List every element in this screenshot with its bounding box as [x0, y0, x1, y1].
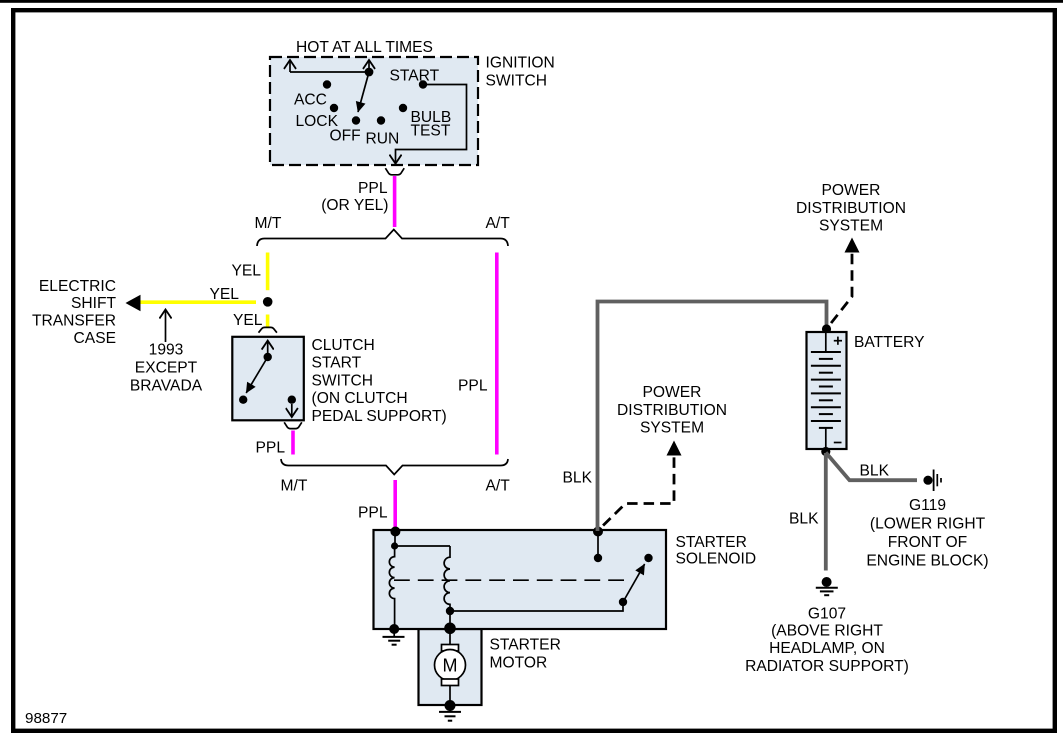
battery top stub [825, 332, 827, 352]
dashed arrow to power distribution mid [600, 457, 675, 529]
node coil junction [391, 542, 398, 549]
svg-text:SHIFT: SHIFT [71, 295, 117, 312]
connector cup below clutch switch [284, 422, 302, 428]
svg-text:SOLENOID: SOLENOID [676, 551, 757, 568]
wire YEL horizontal to transfer case [140, 300, 257, 304]
svg-text:SYSTEM: SYSTEM [819, 218, 883, 235]
ground G119 [923, 476, 932, 485]
arrowhead power distribution top [845, 238, 860, 253]
brace merge M/T A/T [281, 459, 508, 475]
svg-text:HEADLAMP, ON: HEADLAMP, ON [769, 640, 885, 657]
svg-text:G107: G107 [808, 605, 846, 622]
node solenoid ground junction [389, 624, 399, 634]
wire PPL A/T long [495, 253, 499, 455]
motor body M [435, 650, 466, 681]
contact RUN [377, 116, 385, 124]
ground G107 [822, 577, 832, 587]
node fixed contact [594, 554, 602, 562]
svg-text:PPL: PPL [458, 378, 488, 395]
svg-text:98877: 98877 [25, 710, 67, 727]
svg-text:SWITCH: SWITCH [312, 372, 374, 389]
svg-text:OFF: OFF [330, 128, 361, 145]
svg-text:BRAVADA: BRAVADA [130, 377, 203, 394]
contact OFF [352, 116, 360, 124]
wire PPL to solenoid [393, 480, 397, 530]
svg-text:CLUTCH: CLUTCH [312, 337, 375, 354]
svg-text:A/T: A/T [486, 478, 511, 495]
contact LOCK [330, 104, 338, 112]
wire START output [396, 85, 467, 164]
svg-text:YEL: YEL [232, 262, 262, 279]
svg-text:POWER: POWER [822, 182, 881, 199]
clutch start switch box [232, 337, 303, 421]
svg-text:START: START [312, 355, 362, 372]
wire BLK solenoid to battery [598, 302, 827, 532]
wire BLK battery to G107 [824, 453, 828, 571]
battery minus sign [834, 442, 842, 444]
ground starter motor [449, 706, 451, 713]
svg-text:(OR YEL): (OR YEL) [321, 197, 388, 214]
wire feed mid arrow [368, 60, 370, 72]
svg-text:YEL: YEL [233, 312, 263, 329]
svg-text:DISTRIBUTION: DISTRIBUTION [617, 402, 727, 419]
clutch switch bottom-left contact [239, 396, 247, 404]
svg-text:ELECTRIC: ELECTRIC [39, 278, 116, 295]
svg-text:(ON CLUTCH: (ON CLUTCH [312, 390, 408, 407]
svg-text:M/T: M/T [255, 215, 282, 232]
node battery positive [822, 324, 831, 333]
contact BULB TEST [399, 104, 407, 112]
svg-text:PPL: PPL [256, 439, 286, 456]
clutch switch up arrow [267, 341, 269, 357]
connector cap above clutch switch [259, 327, 277, 332]
svg-text:A/T: A/T [486, 215, 511, 232]
wire YEL stub down [266, 315, 270, 328]
svg-text:YEL: YEL [210, 286, 240, 303]
coil hold-in winding [389, 546, 394, 629]
svg-text:HOT AT ALL TIMES: HOT AT ALL TIMES [296, 39, 433, 56]
top edge strip [0, 0, 1063, 3]
svg-text:(ABOVE RIGHT: (ABOVE RIGHT [771, 622, 883, 639]
wire coil link horizontal [395, 545, 450, 547]
battery box [807, 332, 847, 449]
svg-text:BATTERY: BATTERY [854, 334, 925, 351]
wire coil to motor [449, 611, 451, 629]
mechanical linkage dashed [394, 579, 627, 581]
svg-text:M: M [443, 655, 458, 675]
battery bottom stub [825, 428, 827, 449]
contact ACC [323, 80, 331, 88]
svg-text:STARTER: STARTER [490, 637, 561, 654]
arrow 1993 pointer [165, 310, 167, 343]
wire BLK to G119 [826, 453, 917, 481]
node battery negative [821, 447, 830, 456]
svg-text:CASE: CASE [74, 330, 116, 347]
wire PPL from ignition [393, 176, 397, 227]
ground solenoid [393, 629, 395, 637]
svg-text:ACC: ACC [294, 91, 327, 108]
svg-text:BLK: BLK [563, 469, 593, 486]
wire motor feed [449, 629, 451, 645]
node BLK feed entry [593, 527, 603, 537]
svg-text:PPL: PPL [358, 504, 388, 521]
motor terminal top [442, 645, 459, 652]
wire contact run horizontal [450, 602, 623, 611]
svg-text:EXCEPT: EXCEPT [135, 359, 198, 376]
battery plates [811, 352, 841, 428]
switch wiper arrow [358, 72, 369, 112]
wire to coil junction [394, 532, 396, 547]
contact START [419, 80, 427, 88]
svg-text:SYSTEM: SYSTEM [640, 420, 704, 437]
node coil to contact [446, 607, 454, 615]
connector cup below ignition switch [385, 168, 404, 175]
svg-text:START: START [390, 68, 440, 85]
svg-text:PEDAL SUPPORT): PEDAL SUPPORT) [312, 408, 447, 425]
solenoid switch arm arrow [623, 564, 645, 602]
arrowhead to electric shift transfer case [126, 295, 141, 311]
clutch switch down arrow [291, 404, 293, 417]
svg-text:PPL: PPL [358, 180, 388, 197]
svg-text:RUN: RUN [366, 130, 400, 147]
ignition switch box [270, 57, 478, 165]
svg-text:STARTER: STARTER [676, 534, 747, 551]
svg-text:G119: G119 [909, 497, 946, 514]
clutch switch wiper arrow [246, 357, 268, 393]
svg-text:POWER: POWER [643, 384, 702, 401]
node motor feed [444, 623, 456, 635]
node switch pivot [619, 598, 627, 606]
svg-text:MOTOR: MOTOR [490, 654, 548, 671]
svg-text:ENGINE BLOCK): ENGINE BLOCK) [866, 552, 988, 569]
clutch switch top contact [264, 353, 272, 361]
svg-text:SWITCH: SWITCH [486, 73, 548, 90]
clutch switch bottom-right contact [288, 396, 296, 404]
svg-text:RADIATOR SUPPORT): RADIATOR SUPPORT) [745, 658, 909, 675]
node common feed [365, 68, 374, 77]
wire BLK feed to contact [597, 532, 599, 559]
wire motor to ground [449, 686, 451, 706]
svg-text:TRANSFER: TRANSFER [32, 313, 116, 330]
starter solenoid box [374, 530, 667, 629]
node yellow junction [263, 297, 273, 307]
coil pull-in winding [444, 546, 450, 611]
svg-text:DISTRIBUTION: DISTRIBUTION [796, 200, 906, 217]
svg-text:1993: 1993 [149, 342, 184, 359]
brace split M/T A/T [257, 230, 508, 247]
svg-text:FRONT OF: FRONT OF [888, 534, 967, 551]
motor terminal bottom [442, 679, 459, 686]
svg-text:BLK: BLK [789, 510, 819, 527]
wire feed horizontal [290, 71, 369, 73]
wire feed left arrow [289, 60, 291, 72]
svg-text:M/T: M/T [281, 478, 308, 495]
svg-text:(LOWER RIGHT: (LOWER RIGHT [870, 516, 986, 533]
node motor ground [445, 700, 456, 711]
node switch upper contact [644, 554, 652, 562]
wire PPL below clutch switch [291, 431, 295, 455]
wire YEL vertical [266, 253, 270, 291]
svg-text:TEST: TEST [411, 123, 451, 140]
starter motor box [419, 629, 482, 705]
battery plus sign [834, 340, 842, 342]
arrowhead power distribution mid [667, 441, 682, 456]
svg-text:IGNITION: IGNITION [486, 55, 555, 72]
dashed arrow to power distribution top [828, 254, 852, 328]
node PPL entry [390, 527, 400, 537]
svg-text:BLK: BLK [860, 463, 890, 480]
